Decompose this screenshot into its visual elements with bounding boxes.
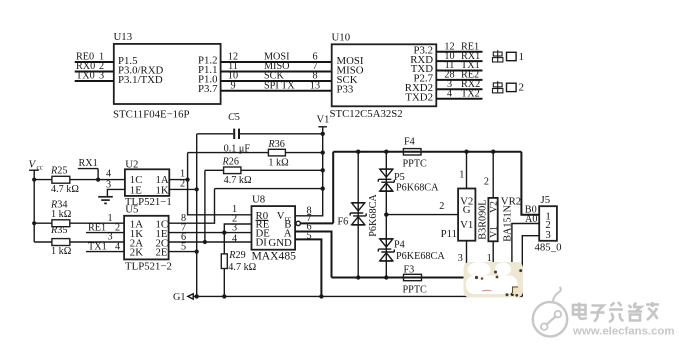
wire net MISO (U13 pin11 to U10 pin7) — [221, 61, 332, 72]
junction ground vertical / U5 pin5 — [195, 250, 199, 254]
svg-text:V1: V1 — [317, 114, 330, 125]
svg-text:4: 4 — [447, 88, 452, 99]
wire R34 to U5 pin1 — [70, 213, 124, 224]
node RX1 stub — [78, 158, 98, 179]
junction R26 dropper / DI line — [203, 240, 207, 244]
label serial port 1 (chuan kou 1) — [493, 50, 525, 63]
svg-text:U10: U10 — [332, 32, 351, 44]
fuse F3 (PPTC) — [403, 264, 428, 295]
U10 pin 28 wire / node RE2 — [436, 70, 482, 81]
power Vcc — [29, 159, 43, 180]
svg-text:1 kΩ: 1 kΩ — [51, 209, 72, 220]
wire R36 dropper to U8 pin1 (RO) — [188, 153, 252, 215]
svg-text:13: 13 — [310, 80, 320, 91]
svg-text:2: 2 — [180, 179, 185, 190]
wire net MOSI (U13 pin12 to U10 pin6) — [221, 52, 332, 63]
svg-text:P6K68CA: P6K68CA — [396, 182, 439, 193]
U10 pin 10 wire / node RX1 — [436, 51, 482, 62]
svg-text:R29: R29 — [228, 250, 245, 261]
U10 pin 12 wire / node RE1 — [436, 41, 482, 52]
svg-text:B3R090L: B3R090L — [478, 199, 489, 239]
U10 pin 4 wire / node TX2 — [436, 88, 482, 99]
junction R36 dropper / U2 pin1 — [186, 178, 190, 182]
svg-text:G: G — [463, 204, 471, 216]
svg-text:4.7 kΩ: 4.7 kΩ — [228, 262, 256, 273]
svg-text:DI: DI — [256, 237, 268, 249]
optocoupler U2 — [125, 158, 172, 208]
svg-text:P4: P4 — [394, 240, 405, 251]
wire R26 dropper to U5 pin6 / U8 DI — [204, 170, 206, 242]
U5 pin 6 wire (2C to U8 DI) — [169, 232, 252, 243]
svg-text:P33: P33 — [337, 84, 354, 96]
wire net SCK (U13 pin10 to U10 pin8) — [221, 71, 332, 82]
svg-text:3: 3 — [99, 71, 104, 82]
wire Vcc vertical bus — [34, 180, 52, 242]
wire net A bottom rail — [332, 277, 512, 279]
TVS diode P4 — [378, 215, 445, 278]
svg-text:3: 3 — [106, 179, 111, 190]
connector J5 (485_0) — [535, 194, 562, 254]
svg-text:V2: V2 — [489, 201, 500, 213]
watermark elecfans logo — [533, 287, 567, 336]
junction G1/ground vertical — [195, 294, 199, 298]
U8 pin 6 wire (A) — [295, 222, 331, 278]
svg-text:TLP521−2: TLP521−2 — [125, 261, 172, 273]
node RE1 / U5 pin2 wire — [86, 223, 124, 234]
svg-text:TX2: TX2 — [461, 88, 480, 99]
watermark blob overlay — [464, 262, 524, 298]
svg-text:R25: R25 — [50, 166, 67, 177]
junction A rail / TVS left — [356, 275, 360, 279]
junction RE/DE/R29 — [222, 230, 226, 234]
U2 pin 2 wire — [169, 179, 196, 190]
resistor R36 — [188, 139, 323, 169]
wire R35 to U5 pin3 — [70, 232, 124, 243]
U5 pin 8 wire (1C to V1 line) — [169, 189, 215, 224]
fuse F4 (PPTC) — [403, 137, 428, 170]
label serial port 2 (chuan kou 2) — [493, 81, 525, 94]
svg-text:3: 3 — [458, 253, 463, 264]
power V1 — [317, 114, 330, 134]
svg-text:TXD2: TXD2 — [405, 91, 433, 103]
wire G1 ground bus — [193, 295, 522, 297]
junction B rail / VR2 pin2 — [491, 150, 495, 154]
junction B rail / P5 — [384, 150, 388, 154]
svg-text:SPI TX: SPI TX — [264, 80, 295, 91]
wire U2 pin3 to ground — [107, 189, 125, 196]
U2 pin 1 wire — [169, 169, 187, 180]
svg-text:1 kΩ: 1 kΩ — [51, 246, 72, 257]
svg-text:1: 1 — [459, 170, 464, 181]
svg-text:2K: 2K — [130, 247, 143, 259]
svg-text:STC11F04E−16P: STC11F04E−16P — [113, 109, 190, 121]
svg-text:3: 3 — [545, 229, 550, 241]
svg-text:4.7 kΩ: 4.7 kΩ — [51, 184, 79, 195]
svg-text:STC12C5A32S2: STC12C5A32S2 — [330, 108, 403, 120]
svg-text:2: 2 — [484, 177, 489, 188]
wire net B rise (F6) — [333, 152, 348, 228]
svg-text:A0: A0 — [525, 214, 537, 225]
TVS diode P5 — [378, 152, 439, 215]
svg-text:1: 1 — [519, 51, 525, 63]
svg-text:P3.7: P3.7 — [198, 83, 218, 95]
svg-text:3: 3 — [107, 232, 112, 243]
node G1 — [173, 292, 193, 303]
svg-text:U5: U5 — [125, 204, 138, 216]
svg-text:2: 2 — [439, 201, 444, 212]
wire U8 RE to DE junction — [224, 224, 251, 233]
svg-text:RX1: RX1 — [79, 158, 98, 169]
resistor R26 — [205, 157, 323, 187]
U5 pin 5 wire (2E to ground bus) — [169, 241, 197, 252]
MAX485 U8 — [252, 193, 297, 262]
junction B rail / P11 pin1 — [464, 150, 468, 154]
U13 pin 2 wire / node RX0 — [75, 61, 114, 72]
wire net SPI TX (U13 pin9 to U10 pin13) — [221, 80, 332, 91]
junction G1/U8 GND — [319, 294, 323, 298]
U13 pin 3 wire / node TX0 — [75, 71, 114, 82]
svg-text:P3.1/TXD: P3.1/TXD — [118, 74, 163, 86]
svg-text:PPTC: PPTC — [403, 285, 428, 296]
svg-text:1K: 1K — [156, 185, 169, 197]
wire ground vertical (C5 left / U2 pin2 / U5 pin5 to G1) — [196, 134, 198, 297]
junction V1/R36 — [321, 150, 325, 154]
resistor R34 — [50, 200, 72, 227]
svg-text:1E: 1E — [130, 185, 142, 197]
MCU U10 — [330, 32, 437, 121]
wire net B0 (rail drop to J5 pin1) — [521, 152, 539, 216]
svg-text:R26: R26 — [222, 157, 239, 168]
U13 pin 1 wire / node RE0 — [75, 52, 114, 63]
junction V1/R26 — [321, 168, 325, 172]
optocoupler U5 — [124, 204, 172, 273]
svg-text:1 kΩ: 1 kΩ — [268, 158, 289, 169]
svg-text:P11: P11 — [441, 228, 457, 240]
wire net A0 (A rail rise to J5 pin2) — [512, 214, 539, 278]
svg-text:F4: F4 — [404, 137, 415, 148]
svg-text:MAX485: MAX485 — [252, 250, 297, 263]
junction V1/C5 — [321, 132, 325, 136]
svg-text:J5: J5 — [541, 194, 551, 206]
wire net B top rail — [333, 151, 521, 153]
junction A rail / P4 — [384, 275, 388, 279]
node TX1 / U5 pin4 wire — [86, 242, 124, 253]
junction ground vertical / U2 pin2 — [195, 187, 199, 191]
svg-text:2E: 2E — [156, 247, 168, 259]
svg-text:P6K68CA: P6K68CA — [368, 194, 379, 237]
svg-text:485_0: 485_0 — [535, 242, 562, 254]
gas discharge tube P11 (B3R090L) — [441, 152, 489, 278]
MCU U13 — [113, 31, 221, 121]
U5 pin 7 wire (1E to U8 DE) — [169, 222, 252, 233]
junction P5/P4/P11 G line — [384, 212, 388, 216]
junction G1/R29 — [222, 294, 226, 298]
resistor R25 — [50, 166, 79, 195]
svg-text:P6KE68CA: P6KE68CA — [396, 251, 445, 262]
varistor VR2 (BA151N) — [484, 152, 521, 278]
resistor R29 — [221, 233, 256, 297]
svg-text:9: 9 — [230, 80, 235, 91]
junction A rail / VR2 pin1 — [491, 275, 495, 279]
U10 pin 11 wire / node TX1 — [436, 60, 482, 71]
svg-text:U2: U2 — [125, 158, 138, 170]
capacitor C5 — [197, 112, 323, 154]
svg-text:2: 2 — [519, 82, 525, 94]
junction B rail / TVS left — [356, 150, 360, 154]
wire U5-1C collector line to V1 — [215, 188, 323, 190]
svg-text:F6: F6 — [338, 217, 349, 228]
svg-text:TX0: TX0 — [76, 71, 95, 82]
svg-text:R36: R36 — [267, 139, 284, 150]
svg-text:GND: GND — [268, 237, 292, 249]
svg-text:P5: P5 — [394, 172, 405, 183]
svg-text:5: 5 — [181, 241, 186, 252]
U8 pin 7 wire (B) with inversion bubble — [296, 213, 333, 225]
wire R25 to U2 pin4 — [70, 179, 125, 181]
svg-text:V1: V1 — [489, 226, 500, 238]
svg-text:V1: V1 — [460, 219, 473, 231]
svg-text:1: 1 — [107, 213, 112, 224]
svg-text:www.elecfans.com: www.elecfans.com — [572, 326, 675, 338]
svg-text:4.7 kΩ: 4.7 kΩ — [224, 175, 252, 186]
junction V1/U5-1C line — [321, 186, 325, 190]
junction Vcc/R34 — [32, 221, 36, 225]
svg-text:4: 4 — [106, 169, 111, 180]
ground symbol — [98, 197, 113, 204]
wire V1 vertical bus to U8 pin8 — [295, 134, 323, 216]
wire J5 pin3 to G1 bus — [522, 236, 539, 297]
wire G line to P11 pin2 — [386, 201, 458, 214]
svg-text:G1: G1 — [173, 292, 185, 303]
svg-text:U8: U8 — [252, 193, 265, 205]
svg-text:4: 4 — [232, 234, 237, 245]
resistor R35 — [50, 225, 72, 257]
svg-text:U13: U13 — [114, 31, 133, 43]
svg-text:C5: C5 — [228, 112, 240, 123]
watermark text dianzifashaoyou — [573, 302, 659, 322]
TVS diode (P6K68CA) left, between B and A rails — [350, 152, 379, 278]
svg-text:PPTC: PPTC — [403, 158, 428, 169]
junction RX1/R25 — [96, 178, 100, 182]
svg-text:R35: R35 — [50, 225, 67, 236]
U8 pin 5 wire (GND) — [295, 230, 321, 296]
junction Vcc/R25 — [32, 178, 36, 182]
junction A rail / P11 pin3 — [464, 275, 468, 279]
U10 pin 3 wire / node RX2 — [436, 79, 482, 90]
